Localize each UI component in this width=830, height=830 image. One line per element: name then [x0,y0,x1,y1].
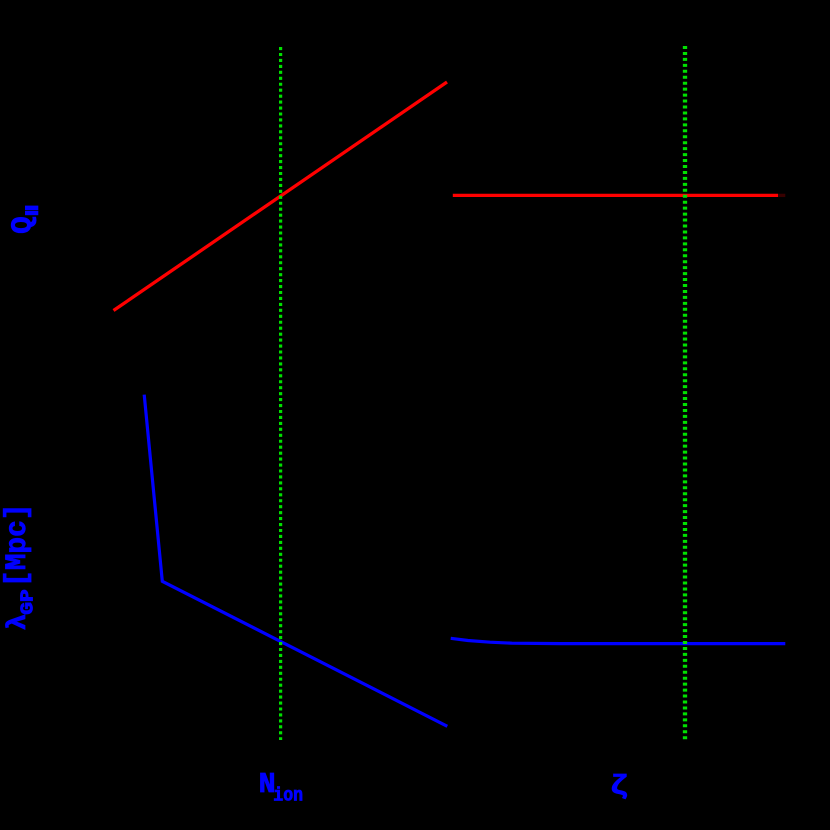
faint red tail right panel [778,194,785,197]
curve blue right panel (lambda_GP vs zeta) [451,638,786,643]
fiducial green dotted line right panel [683,46,687,740]
svg-text:[Mpc]: [Mpc] [1,504,35,588]
svg-text:Q: Q [6,216,39,233]
curve red left panel (Q_II vs N_ion) [114,82,448,311]
curve blue left panel (lambda_GP vs N_ion) [144,395,447,727]
fiducial green dotted line left panel [279,47,282,740]
svg-text:λ: λ [4,614,34,630]
curve red right panel (Q_II vs zeta) [453,194,778,197]
ylabel subscript II bar 1 [25,206,38,211]
svg-text:ion: ion [273,785,303,807]
svg-text:ζ: ζ [610,772,629,803]
svg-text:GP: GP [18,589,39,615]
ylabel subscript II bar 2 [25,211,38,215]
